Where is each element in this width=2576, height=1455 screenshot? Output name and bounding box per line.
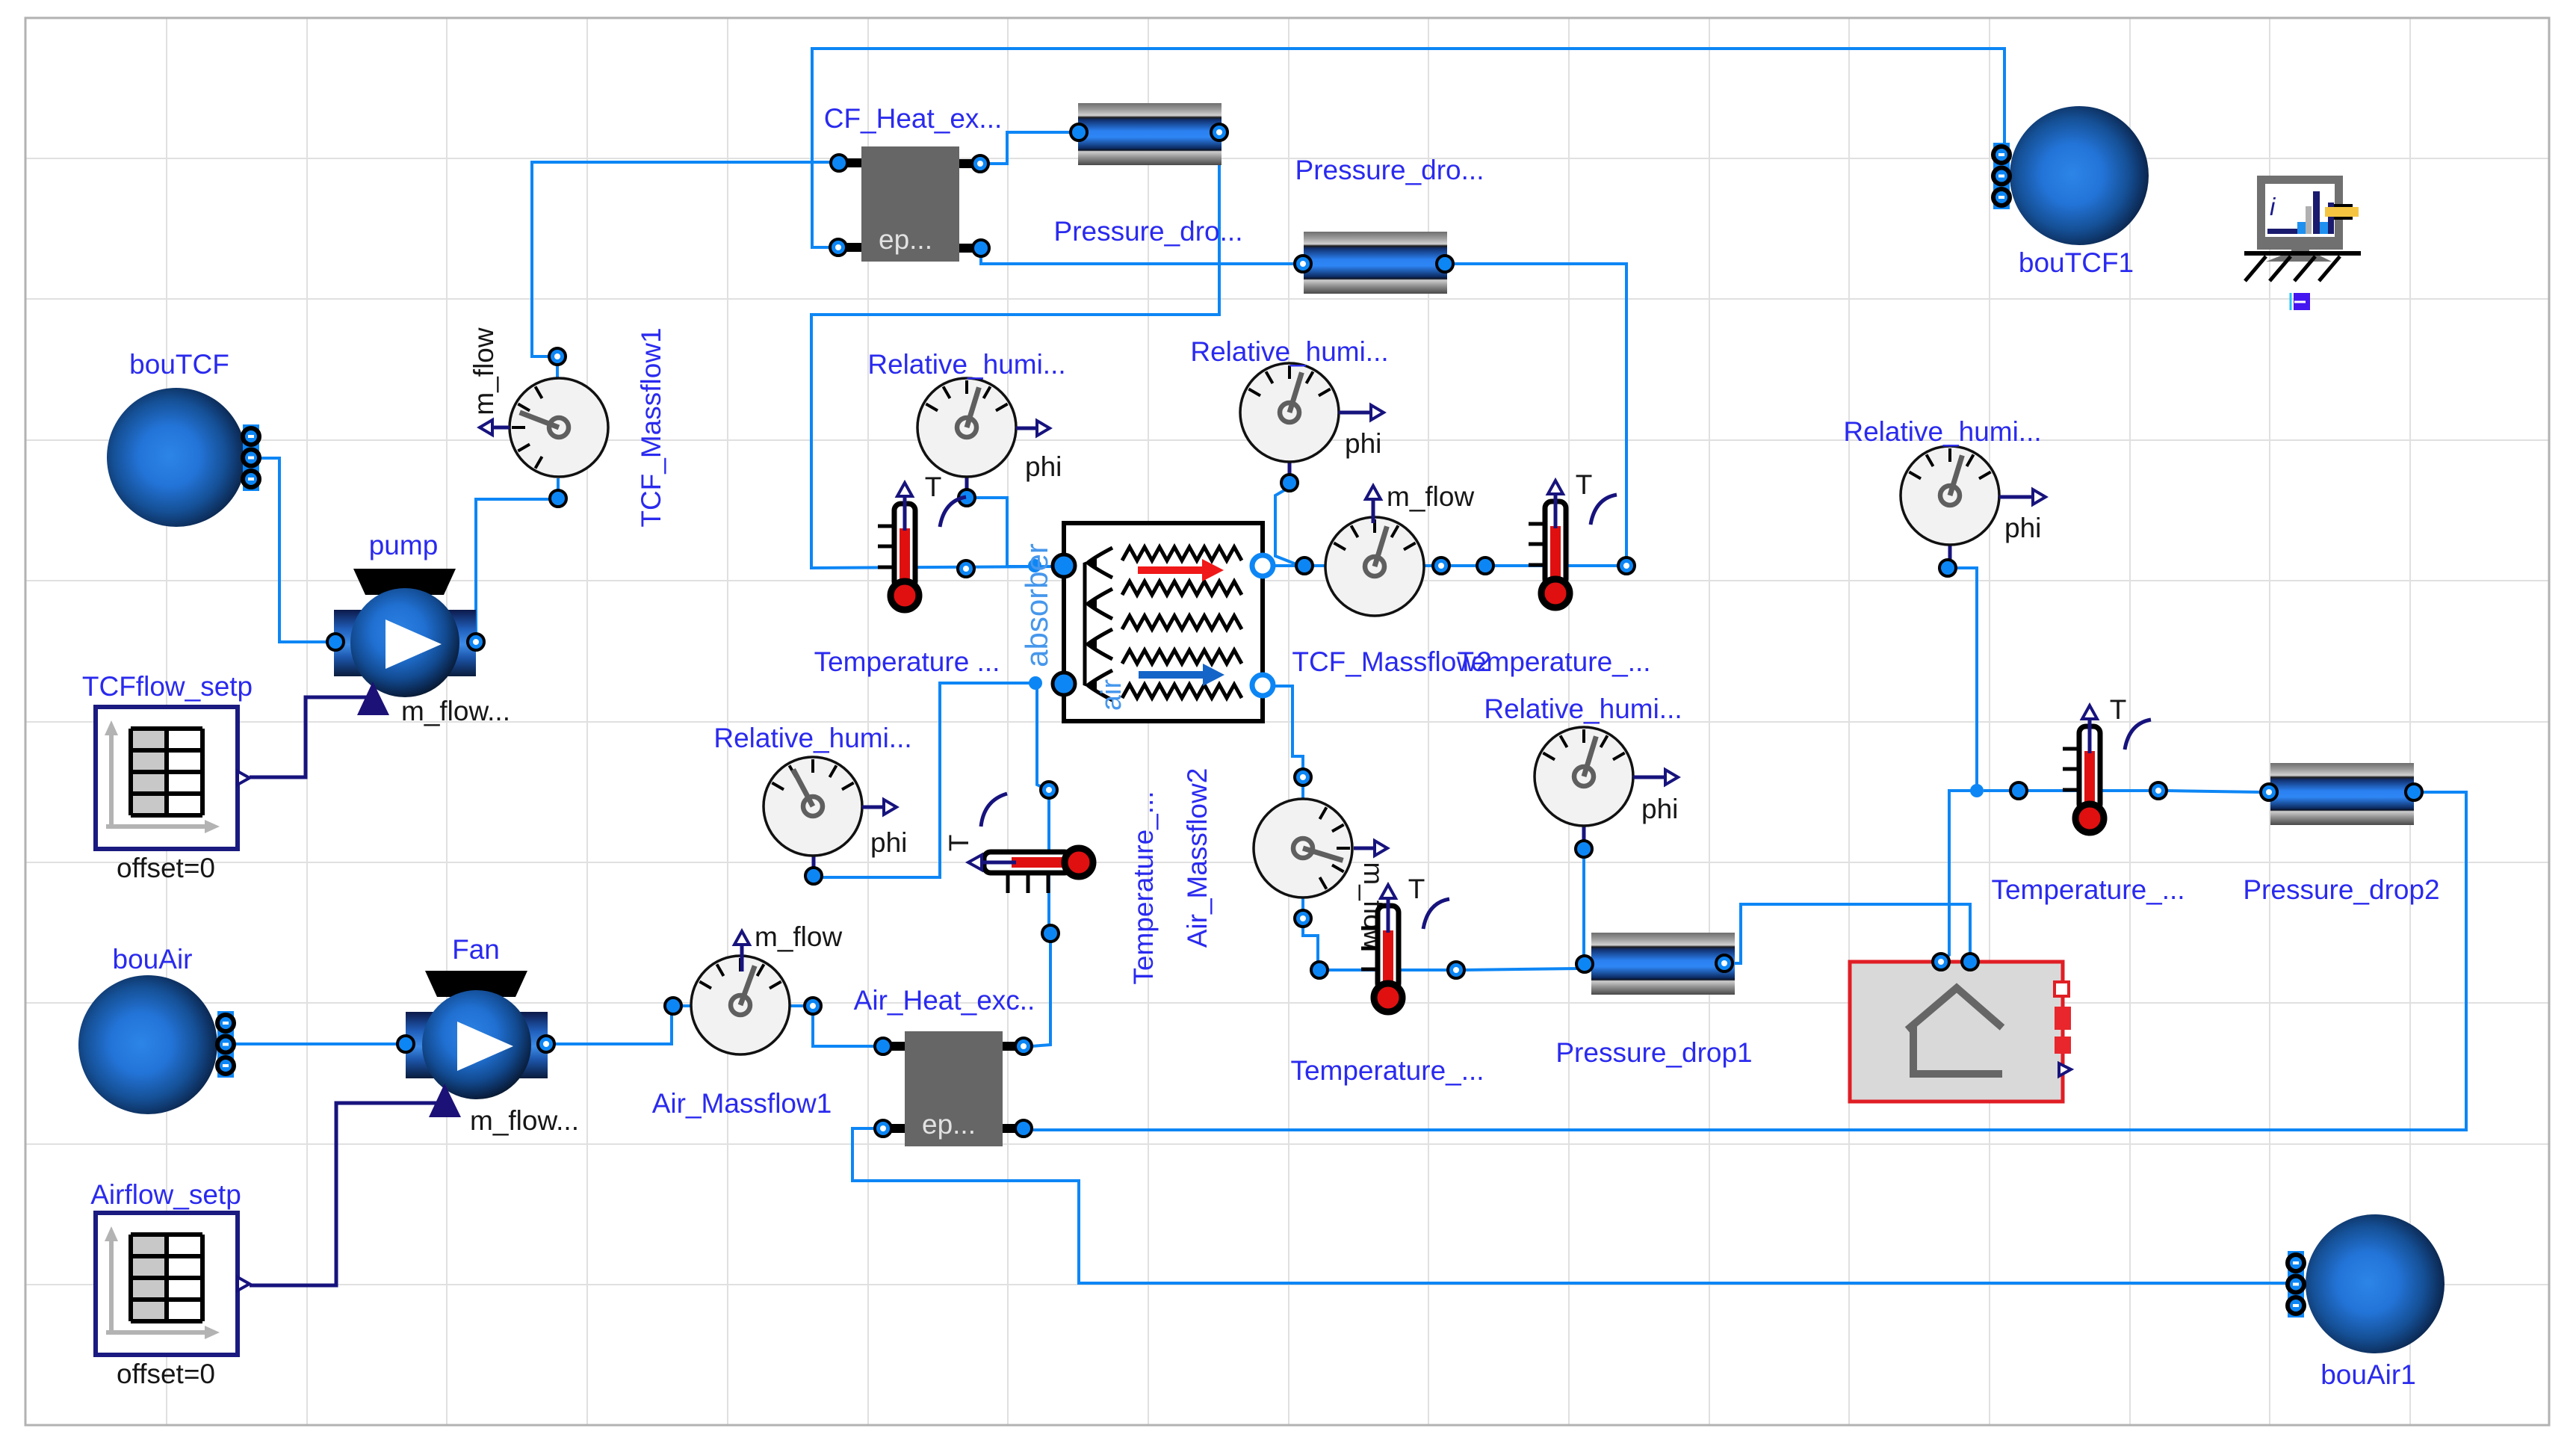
wire CF_Heat_exchanger.port_b1 -> Pressure_dro pipe1.port_a	[988, 132, 1070, 164]
svg-text:m_flow: m_flow	[468, 327, 499, 415]
svg-text:phi: phi	[1345, 428, 1381, 459]
svg-text:bouAir1: bouAir1	[2320, 1359, 2416, 1390]
svg-text:T: T	[944, 835, 974, 852]
svg-text:absorber: absorber	[1019, 543, 1054, 667]
svg-text:phi: phi	[2004, 513, 2041, 543]
house building model	[1850, 954, 2071, 1102]
pipe Pressure_dro (second)	[1295, 155, 1484, 294]
node junction above house	[1970, 784, 1984, 797]
svg-text:TCFflow_setp: TCFflow_setp	[82, 671, 253, 702]
svg-text:Relative_humi...: Relative_humi...	[1484, 693, 1682, 724]
sensor Temperature T2	[1457, 469, 1650, 677]
sensor Relative_humidity4 (air in)	[713, 723, 911, 884]
wire Air_Heat_exchanger.port_b2 -> bouAir1.ports	[852, 1128, 2288, 1283]
sensor Temperature T4 (horizontal)	[944, 782, 1159, 985]
wire TCF_Massflow1.port_b -> CF_Heat_exchanger.port_a1	[532, 162, 852, 377]
sensor Relative_humidity5 (right)	[1843, 416, 2046, 576]
node absorber tcf_in junction	[1028, 559, 1041, 572]
pipe Pressure_drop2	[2243, 763, 2439, 905]
icon simulation results monitor	[2244, 176, 2361, 310]
svg-text:m_flow...: m_flow...	[401, 696, 510, 726]
wire CF_Heat_exchanger.port_a2 -> Pressure_dro pipe2.port_a	[981, 257, 1294, 264]
svg-text:Temperature_...: Temperature_...	[1991, 874, 2185, 905]
svg-text:bouAir: bouAir	[113, 944, 193, 974]
svg-text:Temperature_...: Temperature_...	[1128, 791, 1159, 984]
svg-text:T: T	[1576, 469, 1593, 500]
wire TCFflow_setp.y -> pump.m_flow_in	[250, 697, 368, 777]
pump Fan	[397, 934, 579, 1136]
svg-text:phi: phi	[1025, 451, 1062, 482]
wire bouTCF.ports -> pump.port_a	[261, 458, 334, 642]
wire TCF_Massflow2 line (absorber.tcf_out -> T2)	[1272, 564, 1618, 567]
wire Air_Heat_exchanger.port_a1 <- Air_Massflow1.port_b	[813, 1014, 875, 1046]
table Airflow_setp	[90, 1179, 250, 1389]
svg-text:phi: phi	[1641, 794, 1678, 824]
svg-text:ep...: ep...	[922, 1109, 976, 1140]
wire Air_Massflow2.port_b -> T5 line -> Pressure_drop1.port_a	[1303, 927, 1582, 970]
svg-text:offset=0: offset=0	[117, 1359, 215, 1389]
svg-text:Relative_humi...: Relative_humi...	[713, 723, 911, 753]
svg-text:Pressure_drop2: Pressure_drop2	[2243, 874, 2439, 905]
svg-text:TCF_Massflow1: TCF_Massflow1	[636, 327, 666, 527]
svg-text:Air_Massflow2: Air_Massflow2	[1182, 768, 1213, 948]
boundary bouAir	[78, 944, 234, 1114]
sensor TCF_Massflow2	[1292, 481, 1491, 677]
sensor Temperature T5	[1290, 874, 1484, 1086]
heat-exchanger Air_Heat_exc	[854, 985, 1035, 1146]
absorber unit	[1019, 523, 1273, 721]
svg-text:bouTCF: bouTCF	[129, 349, 229, 380]
wire absorber.air_in down to T4 line	[1037, 683, 1048, 790]
svg-text:m_flow: m_flow	[755, 921, 842, 952]
node junction T6 left	[2010, 782, 2027, 799]
node T1 connection point	[958, 560, 974, 577]
wire pump.port_b -> TCF_Massflow1.port_a	[476, 479, 558, 635]
svg-text:Airflow_setp: Airflow_setp	[90, 1179, 241, 1210]
pump pump	[327, 530, 510, 726]
heat-exchanger CF_Heat_ex	[824, 103, 1003, 262]
sensor Temperature T6	[1991, 694, 2185, 905]
wire absorber.air_in branch left (T1b/RH4)	[823, 683, 1035, 877]
svg-text:Air_Heat_exc..: Air_Heat_exc..	[854, 985, 1035, 1016]
svg-text:Fan: Fan	[452, 934, 500, 965]
wire bouAir.ports -> Fan.port_a	[234, 1042, 404, 1045]
sensor Air_Massflow1	[652, 921, 843, 1119]
sensor Air_Massflow2	[1254, 769, 1389, 950]
wire junction -> T6 line -> Pressure_drop2.port_a	[1984, 791, 2261, 792]
svg-text:Temperature_...: Temperature_...	[1290, 1055, 1484, 1086]
wire Pressure_drop1.port_b -> house.port_a	[1733, 904, 1970, 963]
svg-text:phi: phi	[870, 827, 907, 858]
svg-text:Pressure_dro...: Pressure_dro...	[1295, 155, 1484, 185]
svg-text:bouTCF1: bouTCF1	[2019, 247, 2134, 278]
wire Relative_humidity1 -> absorber junction	[973, 498, 1031, 566]
svg-text:pump: pump	[369, 530, 439, 560]
wire Relative_humidity2 -> junction	[1275, 487, 1300, 566]
wire Relative_humidity4 -> junction above house	[1956, 568, 1977, 791]
svg-text:Temperature ...: Temperature ...	[814, 646, 1000, 677]
pipe Pressure_dro (top)	[1054, 103, 1243, 247]
wire Pressure_drop2.port_b -> loop -> Air_Heat_exchanger.port_a2	[1032, 792, 2466, 1130]
boundary bouAir1	[2288, 1214, 2445, 1390]
wire pipe2.port_b -> thermometer T2 line	[1454, 264, 1626, 557]
sensor Relative_humidity3	[1484, 693, 1682, 857]
sensor Temperature T1	[814, 472, 1000, 677]
wire T4 line down -> Air_Heat_exchanger.port_b1	[1032, 798, 1050, 1046]
wire Fan.port_b -> Air_Massflow1.port_a	[551, 1007, 673, 1044]
svg-text:T: T	[2110, 694, 2127, 725]
svg-text:Temperature_...: Temperature_...	[1457, 646, 1650, 677]
svg-text:Pressure_dro...: Pressure_dro...	[1054, 216, 1243, 247]
svg-text:ep...: ep...	[879, 224, 932, 255]
svg-text:CF_Heat_ex...: CF_Heat_ex...	[824, 103, 1003, 134]
svg-text:Pressure_drop1: Pressure_drop1	[1555, 1037, 1752, 1068]
svg-text:offset=0: offset=0	[117, 853, 215, 883]
node junction T4-AirHeat	[1042, 925, 1059, 942]
svg-text:Relative_humi...: Relative_humi...	[1190, 336, 1388, 367]
wire CF_Heat_exchanger.port_b2 -> bouTCF1.ports	[812, 49, 2004, 247]
table TCFflow_setp	[82, 671, 253, 883]
wire junction -> house.port_b	[1942, 791, 1977, 959]
svg-text:T: T	[925, 472, 942, 502]
label Air_Massflow2 rotated	[1182, 768, 1213, 948]
svg-text:m_flow...: m_flow...	[470, 1105, 579, 1136]
node junction TCF_Massflow2-T2	[1477, 557, 1493, 574]
boundary bouTCF1	[1993, 106, 2149, 278]
svg-text:air: air	[1096, 679, 1127, 711]
node junction Air_Massflow2 bottom	[1311, 962, 1328, 978]
sensor Relative_humidity1	[867, 349, 1065, 506]
wire pipe1.port_b -> Temperature sensor T1 line -> absorber.tcf_in	[811, 140, 1219, 568]
svg-text:Air_Massflow1: Air_Massflow1	[652, 1088, 832, 1119]
sensor Relative_humidity2	[1190, 336, 1388, 491]
sensor TCF_Massflow1	[468, 327, 666, 528]
wire Airflow_setp.y -> Fan.m_flow_in	[250, 1103, 437, 1285]
svg-text:m_flow: m_flow	[1387, 481, 1474, 512]
svg-text:T: T	[1408, 874, 1425, 904]
node absorber air_in junction	[1029, 676, 1042, 690]
pipe Pressure_drop1	[1555, 933, 1752, 1068]
svg-text:Relative_humi...: Relative_humi...	[1843, 416, 2041, 447]
boundary bouTCF	[107, 349, 259, 527]
svg-text:Relative_humi...: Relative_humi...	[867, 349, 1065, 380]
wire absorber.air_out -> Air_Massflow2.port_a	[1272, 686, 1303, 770]
wire Relative_humidity3 -> Pressure_drop1.port_a	[1582, 857, 1585, 958]
